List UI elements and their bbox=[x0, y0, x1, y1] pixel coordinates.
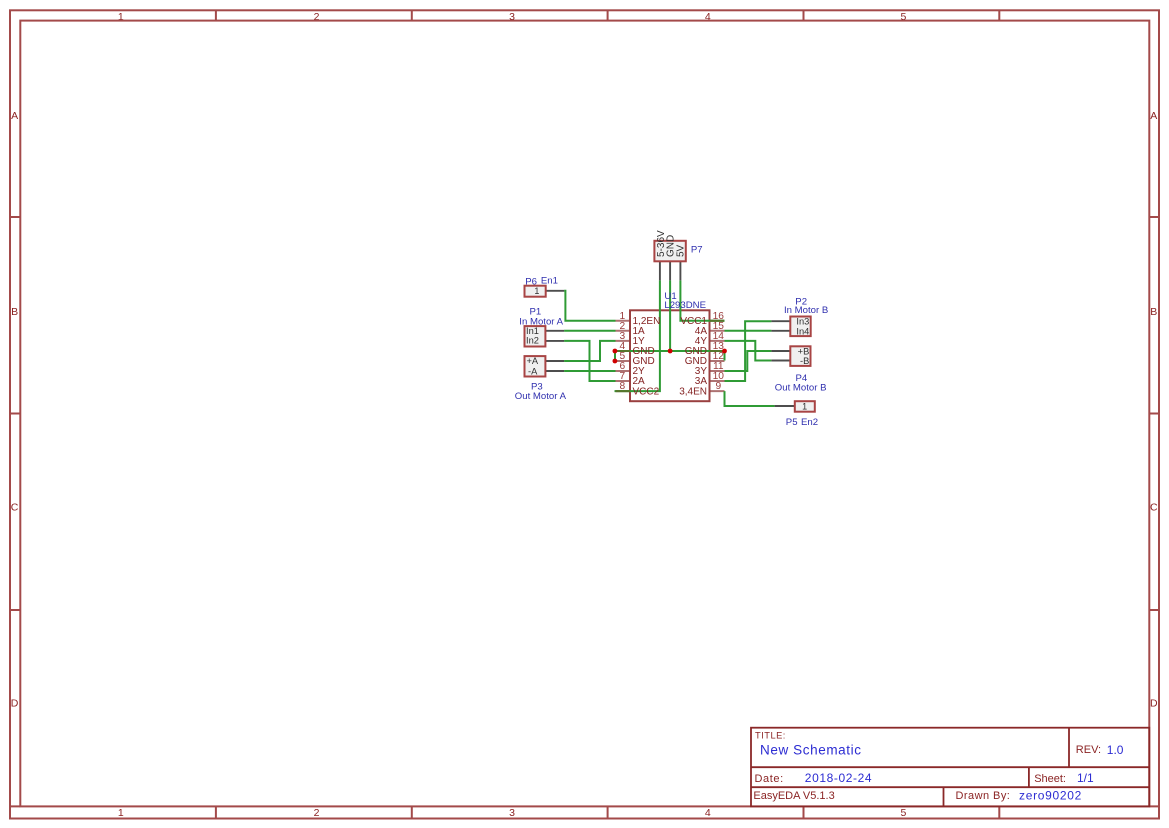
wire +B to pin11 bbox=[725, 351, 772, 371]
svg-text:3: 3 bbox=[509, 11, 515, 23]
svg-text:Out Motor B: Out Motor B bbox=[775, 383, 827, 394]
svg-text:P5: P5 bbox=[786, 417, 798, 428]
svg-text:B: B bbox=[11, 306, 18, 318]
svg-text:1: 1 bbox=[534, 286, 539, 296]
left ruler ticks bbox=[10, 217, 20, 610]
svg-text:In Motor B: In Motor B bbox=[784, 305, 828, 316]
wire pin9 to P5 bbox=[725, 391, 775, 406]
node pin4 junction bbox=[613, 349, 618, 354]
wires green bbox=[564, 280, 775, 406]
IC U1 body bbox=[630, 310, 710, 401]
svg-text:L293DNE: L293DNE bbox=[664, 300, 706, 311]
P1 leads bbox=[545, 331, 564, 341]
wire P7 GND down to bus bbox=[669, 280, 671, 351]
svg-text:4: 4 bbox=[705, 11, 711, 23]
svg-text:In2: In2 bbox=[526, 336, 539, 346]
svg-text:3: 3 bbox=[509, 807, 515, 819]
svg-text:1: 1 bbox=[802, 401, 807, 411]
P4 leads bbox=[771, 351, 790, 361]
top ruler ticks bbox=[216, 10, 999, 20]
wire In3 to pin10 bbox=[725, 321, 772, 381]
P2 leads bbox=[771, 321, 790, 331]
svg-text:In1: In1 bbox=[526, 326, 539, 336]
junction dots bbox=[613, 349, 727, 364]
svg-text:A: A bbox=[1150, 110, 1157, 122]
svg-text:New Schematic: New Schematic bbox=[760, 743, 862, 758]
wire In2 to pin7 bbox=[564, 341, 615, 381]
connector P3 bbox=[525, 356, 546, 376]
svg-text:D: D bbox=[11, 697, 19, 709]
wire jumper pins 13-12 bbox=[724, 351, 726, 361]
svg-text:zero90202: zero90202 bbox=[1019, 789, 1082, 803]
svg-text:1: 1 bbox=[118, 11, 124, 23]
IC U1 pin stubs left (pins 1-8) bbox=[616, 321, 725, 391]
svg-text:5V: 5V bbox=[676, 244, 687, 257]
svg-text:1.0: 1.0 bbox=[1107, 743, 1124, 757]
right ruler ticks bbox=[1149, 217, 1159, 610]
svg-text:In3: In3 bbox=[796, 316, 809, 326]
wire GND bus pin4 to pin13 bbox=[615, 350, 725, 352]
bottom ruler ticks bbox=[216, 806, 999, 818]
svg-text:+B: +B bbox=[798, 346, 810, 356]
svg-text:4: 4 bbox=[705, 807, 711, 819]
svg-text:Sheet:: Sheet: bbox=[1034, 773, 1066, 785]
wire -A to pin6 bbox=[564, 370, 615, 372]
IC U1 pin names bbox=[633, 316, 708, 397]
svg-text:5: 5 bbox=[900, 807, 906, 819]
svg-text:A: A bbox=[11, 110, 18, 122]
band bottom closures bbox=[10, 805, 1159, 807]
wire +A to pin3 bbox=[564, 341, 615, 361]
wire 5V to VCC1 pin16 bbox=[680, 280, 724, 320]
svg-text:P7: P7 bbox=[691, 245, 703, 256]
P3 leads bbox=[545, 361, 564, 371]
svg-text:-B: -B bbox=[800, 356, 809, 366]
P5 lead bbox=[775, 405, 795, 407]
svg-text:-A: -A bbox=[528, 366, 538, 376]
svg-text:TITLE:: TITLE: bbox=[755, 730, 786, 740]
svg-text:Date:: Date: bbox=[755, 773, 784, 785]
node GND mid junction bbox=[668, 349, 673, 354]
connector P5 bbox=[795, 401, 815, 412]
dark connector leads bbox=[545, 261, 794, 406]
svg-text:3,4EN: 3,4EN bbox=[679, 386, 707, 397]
svg-text:D: D bbox=[1150, 697, 1158, 709]
svg-text:5: 5 bbox=[900, 11, 906, 23]
svg-text:C: C bbox=[11, 502, 19, 514]
svg-text:Out Motor A: Out Motor A bbox=[515, 391, 567, 402]
svg-text:2: 2 bbox=[314, 807, 320, 819]
wire P6 to pin1 bbox=[564, 291, 615, 321]
wire 5-36V to VCC2 pin8 bbox=[615, 280, 660, 391]
svg-text:REV:: REV: bbox=[1076, 744, 1101, 756]
svg-text:EasyEDA V5.1.3: EasyEDA V5.1.3 bbox=[753, 790, 834, 802]
wire -B to pin14 bbox=[725, 341, 772, 361]
svg-text:+A: +A bbox=[527, 356, 539, 366]
svg-text:Drawn By:: Drawn By: bbox=[956, 790, 1011, 802]
svg-text:B: B bbox=[1150, 306, 1157, 318]
svg-text:C: C bbox=[1150, 502, 1158, 514]
node pin5 junction bbox=[613, 359, 618, 364]
svg-text:1: 1 bbox=[118, 807, 124, 819]
svg-text:9: 9 bbox=[715, 381, 721, 392]
svg-text:8: 8 bbox=[619, 381, 625, 392]
connector P7 bbox=[654, 241, 685, 261]
SCHEMATIC bbox=[515, 230, 828, 428]
svg-text:2018-02-24: 2018-02-24 bbox=[805, 771, 872, 785]
wire-over-stub overlap tint bbox=[616, 321, 725, 391]
connector P4 bbox=[790, 346, 810, 366]
wire In1 to pin2 bbox=[564, 330, 615, 332]
svg-text:En2: En2 bbox=[801, 417, 818, 428]
svg-text:2: 2 bbox=[314, 11, 320, 23]
node pin13 junction bbox=[722, 349, 727, 354]
svg-text:VCC2: VCC2 bbox=[633, 386, 660, 397]
wire In4 to pin15 bbox=[725, 330, 772, 332]
P7 leads bbox=[660, 261, 681, 280]
wire jumper pins 4-5 bbox=[614, 351, 616, 361]
svg-text:1/1: 1/1 bbox=[1077, 771, 1094, 785]
P6 lead bbox=[546, 290, 564, 292]
svg-text:In4: In4 bbox=[796, 326, 809, 336]
IC U1 pin numbers bbox=[619, 311, 724, 392]
TITLE BLOCK bbox=[751, 728, 1149, 807]
